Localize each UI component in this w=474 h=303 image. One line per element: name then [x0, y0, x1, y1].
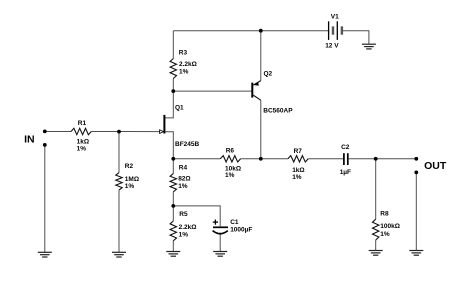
svg-text:R3: R3 [179, 49, 188, 56]
svg-text:BF245B: BF245B [175, 141, 200, 148]
svg-text:V1: V1 [331, 13, 339, 20]
svg-text:C1: C1 [230, 219, 239, 226]
svg-text:12 V: 12 V [325, 43, 339, 50]
svg-text:1%: 1% [125, 183, 135, 190]
svg-text:R2: R2 [125, 163, 134, 170]
svg-text:2.2kΩ: 2.2kΩ [179, 61, 197, 68]
svg-text:1kΩ: 1kΩ [77, 138, 89, 145]
svg-text:R5: R5 [179, 211, 188, 218]
svg-text:100kΩ: 100kΩ [380, 223, 400, 230]
svg-text:1%: 1% [225, 172, 235, 179]
svg-text:Q2: Q2 [264, 71, 273, 78]
svg-text:1%: 1% [178, 183, 188, 190]
svg-text:R4: R4 [179, 164, 188, 171]
svg-text:1%: 1% [77, 145, 87, 152]
svg-text:C2: C2 [341, 144, 350, 151]
svg-text:R7: R7 [294, 148, 303, 155]
svg-text:BC560AP: BC560AP [263, 108, 293, 115]
svg-text:Q1: Q1 [175, 104, 184, 111]
svg-text:1%: 1% [179, 232, 189, 239]
svg-text:R1: R1 [78, 120, 87, 127]
svg-text:R6: R6 [226, 148, 235, 155]
svg-text:82Ω: 82Ω [178, 176, 190, 183]
svg-text:2.2kΩ: 2.2kΩ [179, 224, 197, 231]
svg-text:1µF: 1µF [340, 169, 351, 176]
svg-text:1%: 1% [292, 174, 302, 181]
svg-text:IN: IN [24, 134, 34, 146]
svg-text:OUT: OUT [424, 160, 447, 172]
svg-text:1kΩ: 1kΩ [292, 167, 304, 174]
svg-text:1%: 1% [179, 68, 189, 75]
svg-text:1MΩ: 1MΩ [125, 176, 139, 183]
svg-text:1%: 1% [380, 231, 390, 238]
svg-text:1000µF: 1000µF [230, 226, 252, 233]
svg-text:R8: R8 [380, 210, 389, 217]
